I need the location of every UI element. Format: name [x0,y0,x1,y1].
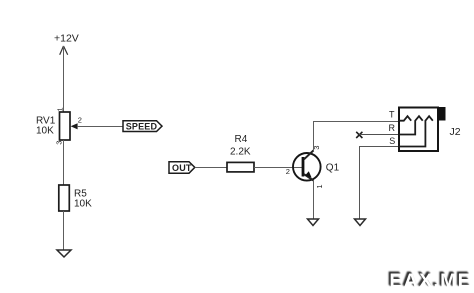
svg-text:2.2K: 2.2K [230,146,251,157]
wire Q1 emitter to ground [313,180,315,219]
resistor R5 10K [59,185,92,211]
wire RV1 wiper to SPEED label [77,126,123,128]
svg-text:3: 3 [54,141,63,145]
wire R4 to Q1 base [254,167,302,169]
power +12V [54,33,79,55]
svg-text:10K: 10K [36,126,54,137]
ground under R5 [57,250,71,257]
svg-text:T: T [389,110,395,120]
global label SPEED [123,121,162,132]
svg-text:SPEED: SPEED [126,121,158,131]
J2 tip contact T [399,116,411,121]
wire J2 pin S to ground [360,147,400,220]
no-connect X on J2 pin R [356,132,362,138]
svg-text:OUT: OUT [172,163,192,173]
wire RV1 pin3 to R5 [63,140,65,185]
watermark EAX.ME [389,270,472,293]
svg-text:2: 2 [78,115,82,124]
svg-text:J2: J2 [450,126,461,138]
connector J2 (TRS jack) body [399,107,446,151]
svg-text:R: R [389,123,396,133]
svg-text:R4: R4 [235,134,248,145]
svg-text:1: 1 [55,107,64,111]
svg-text:+12V: +12V [54,33,79,45]
svg-text:S: S [389,136,395,146]
wire +12V to RV1 pin1 [63,46,65,112]
ground under Q1 emitter [308,219,319,226]
svg-text:Q1: Q1 [326,163,340,174]
wire R5 to ground [63,211,65,250]
wire no-connect to J2 pin R [359,134,399,136]
ground under J2 pin S [355,219,366,226]
J2 ring contact R [399,116,423,134]
transistor Q1 (NPN) [286,146,340,189]
potentiometer RV1 10K [36,107,82,144]
wire OUT to R4 [195,167,227,169]
resistor R4 2.2K [227,134,254,172]
svg-text:2: 2 [286,167,290,176]
svg-text:1: 1 [315,184,324,188]
J2 sleeve contact S [399,116,433,146]
global label OUT [169,162,195,174]
wire Q1 collector to J2 pin T [314,122,400,151]
svg-text:10K: 10K [74,198,92,209]
